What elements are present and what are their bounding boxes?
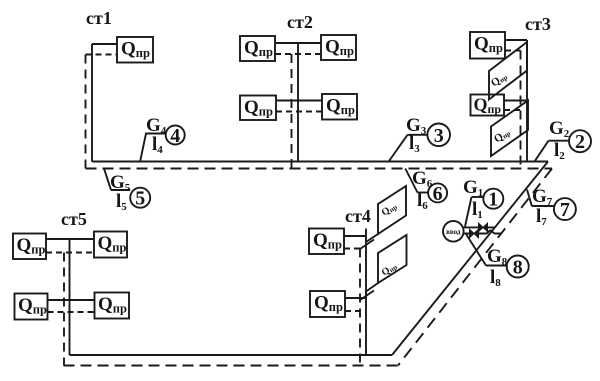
node G4 circle 4	[166, 126, 185, 145]
wire supply diagonal D1	[392, 162, 548, 356]
inlet node vvod circle	[443, 221, 464, 242]
svg-text:Qпр: Qпр	[474, 33, 503, 55]
svg-text:l2: l2	[554, 140, 565, 162]
wire st5 upper supply connection	[46, 238, 94, 240]
wire st5 lower supply connection	[48, 299, 95, 301]
svg-text:l4: l4	[152, 134, 163, 156]
svg-text:l5: l5	[116, 191, 127, 213]
svg-text:G6: G6	[412, 168, 433, 190]
riser st5 supply vertical	[69, 239, 71, 355]
wire st1 box return connection dashed	[86, 54, 118, 56]
node G4 fraction bar	[145, 133, 166, 135]
node G2 circle 2	[569, 130, 591, 152]
heat load box Qpr st4 lower	[310, 291, 345, 317]
radiator parallelogram st4 upper	[378, 186, 406, 234]
wire st2 lower supply connection	[276, 100, 322, 102]
svg-text:G7: G7	[532, 186, 553, 208]
wire st1 box supply connection	[92, 43, 117, 45]
svg-text:ст1: ст1	[86, 8, 112, 28]
wire st4 upper radiator return connector	[360, 240, 374, 250]
wire st4 upper return connection dashed	[344, 248, 360, 250]
wire return diagonal D2 dashed	[398, 169, 552, 366]
svg-text:7: 7	[560, 199, 570, 221]
wire st4 upper supply connection	[344, 235, 366, 237]
svg-text:ст2: ст2	[287, 12, 313, 32]
svg-text:8: 8	[513, 257, 523, 279]
node G6 fraction bar	[418, 192, 429, 194]
radiator parallelogram st3 lower	[491, 101, 528, 157]
svg-text:Qпр: Qпр	[474, 94, 502, 116]
wire st2 upper return connection dashed	[275, 53, 321, 55]
svg-text:Qпр: Qпр	[380, 201, 399, 219]
node G8 label leader	[466, 234, 486, 266]
heat load box Qpr st5 bottom-right	[95, 293, 130, 319]
node G7 circle 7	[554, 198, 576, 220]
node G8 circle 8	[507, 256, 529, 278]
svg-text:Qпр: Qпр	[313, 230, 342, 252]
svg-text:ст5: ст5	[61, 209, 87, 229]
node G2 label leader	[535, 141, 549, 162]
node G3 fraction bar	[408, 134, 428, 136]
svg-text:ввод: ввод	[446, 228, 461, 236]
heat load box Qpr st4 upper	[309, 229, 344, 255]
radiator parallelogram st4 lower	[378, 235, 407, 283]
wire st4 lower radiator supply connector	[366, 283, 378, 292]
svg-text:2: 2	[575, 131, 585, 153]
heat load box Qpr st5 top-left	[13, 234, 46, 260]
riser st1 supply vertical	[91, 44, 93, 162]
wire st3 lower return connection dashed	[504, 109, 521, 111]
wire st5 lower return connection dashed	[48, 311, 95, 313]
valve on supply line	[479, 223, 488, 232]
svg-text:6: 6	[433, 183, 443, 205]
wire st4 lower return connection dashed	[345, 310, 360, 312]
node G5 circle 5	[130, 188, 150, 208]
heat load box Qpr st5 bottom-left	[15, 294, 48, 320]
wire st2 lower return connection dashed	[276, 111, 322, 113]
svg-text:Qпр: Qпр	[98, 294, 127, 316]
riser st2 return vertical dashed	[291, 54, 293, 169]
wire st4 lower supply connection	[345, 297, 366, 299]
wire st5 upper return connection dashed	[46, 252, 94, 254]
heat load box Qpr st5 top-right	[94, 232, 127, 258]
node G5 label leader	[104, 169, 111, 191]
svg-text:ст4: ст4	[345, 206, 371, 226]
wire st4 upper radiator supply connector	[366, 234, 378, 242]
svg-text:G8: G8	[487, 246, 508, 268]
heat load box Qpr st2 top-right	[321, 35, 356, 60]
wire st3 upper return connection dashed	[505, 50, 521, 52]
wire return main top horizontal dashed	[86, 168, 553, 170]
riser st1 return vertical dashed	[85, 55, 87, 169]
riser st4 supply vertical	[365, 229, 367, 356]
node G1 fraction bar	[472, 196, 484, 198]
heat load box Qpr st2 bottom-left	[240, 96, 276, 121]
riser st2 supply vertical	[297, 43, 299, 162]
svg-text:l7: l7	[536, 206, 547, 228]
node G4 label leader	[140, 134, 146, 163]
wire st2 upper supply connection	[275, 42, 321, 44]
heat load box Qpr st2 top-left	[240, 36, 275, 61]
svg-text:5: 5	[135, 188, 145, 210]
svg-text:Qпр: Qпр	[17, 235, 46, 256]
node G3 label leader	[389, 135, 408, 162]
wire st4 lower radiator return connector	[360, 291, 374, 301]
svg-text:G1: G1	[463, 177, 483, 199]
svg-text:Qпр: Qпр	[98, 233, 127, 255]
node G5 fraction bar	[111, 189, 130, 191]
heat load box Qpr st2 bottom-right	[322, 94, 357, 120]
node G7 fraction bar	[532, 205, 554, 207]
svg-text:l1: l1	[472, 199, 483, 221]
riser st4 return vertical dashed	[359, 249, 361, 366]
riser st5 return vertical dashed	[63, 253, 65, 366]
heat load box Qpr st1	[117, 37, 153, 63]
svg-text:4: 4	[170, 125, 180, 147]
node G8 fraction bar	[486, 265, 507, 267]
valve on return line	[470, 229, 479, 238]
svg-text:Qпр: Qпр	[314, 292, 343, 314]
wire inlet supply line	[464, 226, 495, 228]
svg-text:Qпр: Qпр	[326, 95, 355, 117]
svg-text:Qпр: Qпр	[244, 97, 273, 119]
svg-text:Qпр: Qпр	[380, 261, 399, 279]
svg-text:l8: l8	[490, 267, 501, 289]
node G6 circle 6	[428, 183, 447, 202]
wire inlet return line with crossing break	[464, 231, 502, 234]
heat load box Qpr st3 lower	[471, 94, 505, 116]
node G7 label leader	[527, 190, 532, 207]
wire st3 lower supply connection	[504, 100, 527, 102]
svg-text:Qпр: Qпр	[244, 37, 273, 59]
node G6 label leader	[405, 169, 417, 193]
svg-text:3: 3	[434, 125, 444, 147]
node G3 circle 3	[427, 124, 450, 147]
riser st3 return vertical dashed	[520, 51, 522, 169]
svg-text:Qпр: Qпр	[325, 36, 354, 58]
svg-text:l3: l3	[409, 133, 420, 155]
riser st3 supply vertical	[526, 40, 528, 162]
wire st3 upper supply connection	[505, 39, 527, 41]
svg-text:G2: G2	[549, 118, 570, 140]
radiator parallelogram st3 upper	[489, 42, 527, 100]
wire return main bottom horizontal dashed	[64, 365, 399, 367]
node G2 fraction bar	[549, 140, 570, 142]
svg-text:Qпр: Qпр	[18, 295, 47, 317]
heat load box Qpr st3 upper	[470, 32, 505, 59]
svg-text:Qпр: Qпр	[121, 38, 150, 60]
svg-text:ст3: ст3	[525, 14, 551, 34]
node G1 label leader	[465, 197, 472, 227]
wire supply main top horizontal	[92, 161, 548, 163]
svg-text:1: 1	[488, 189, 498, 211]
node G1 circle 1	[483, 189, 503, 209]
wire supply main bottom horizontal	[70, 354, 393, 356]
